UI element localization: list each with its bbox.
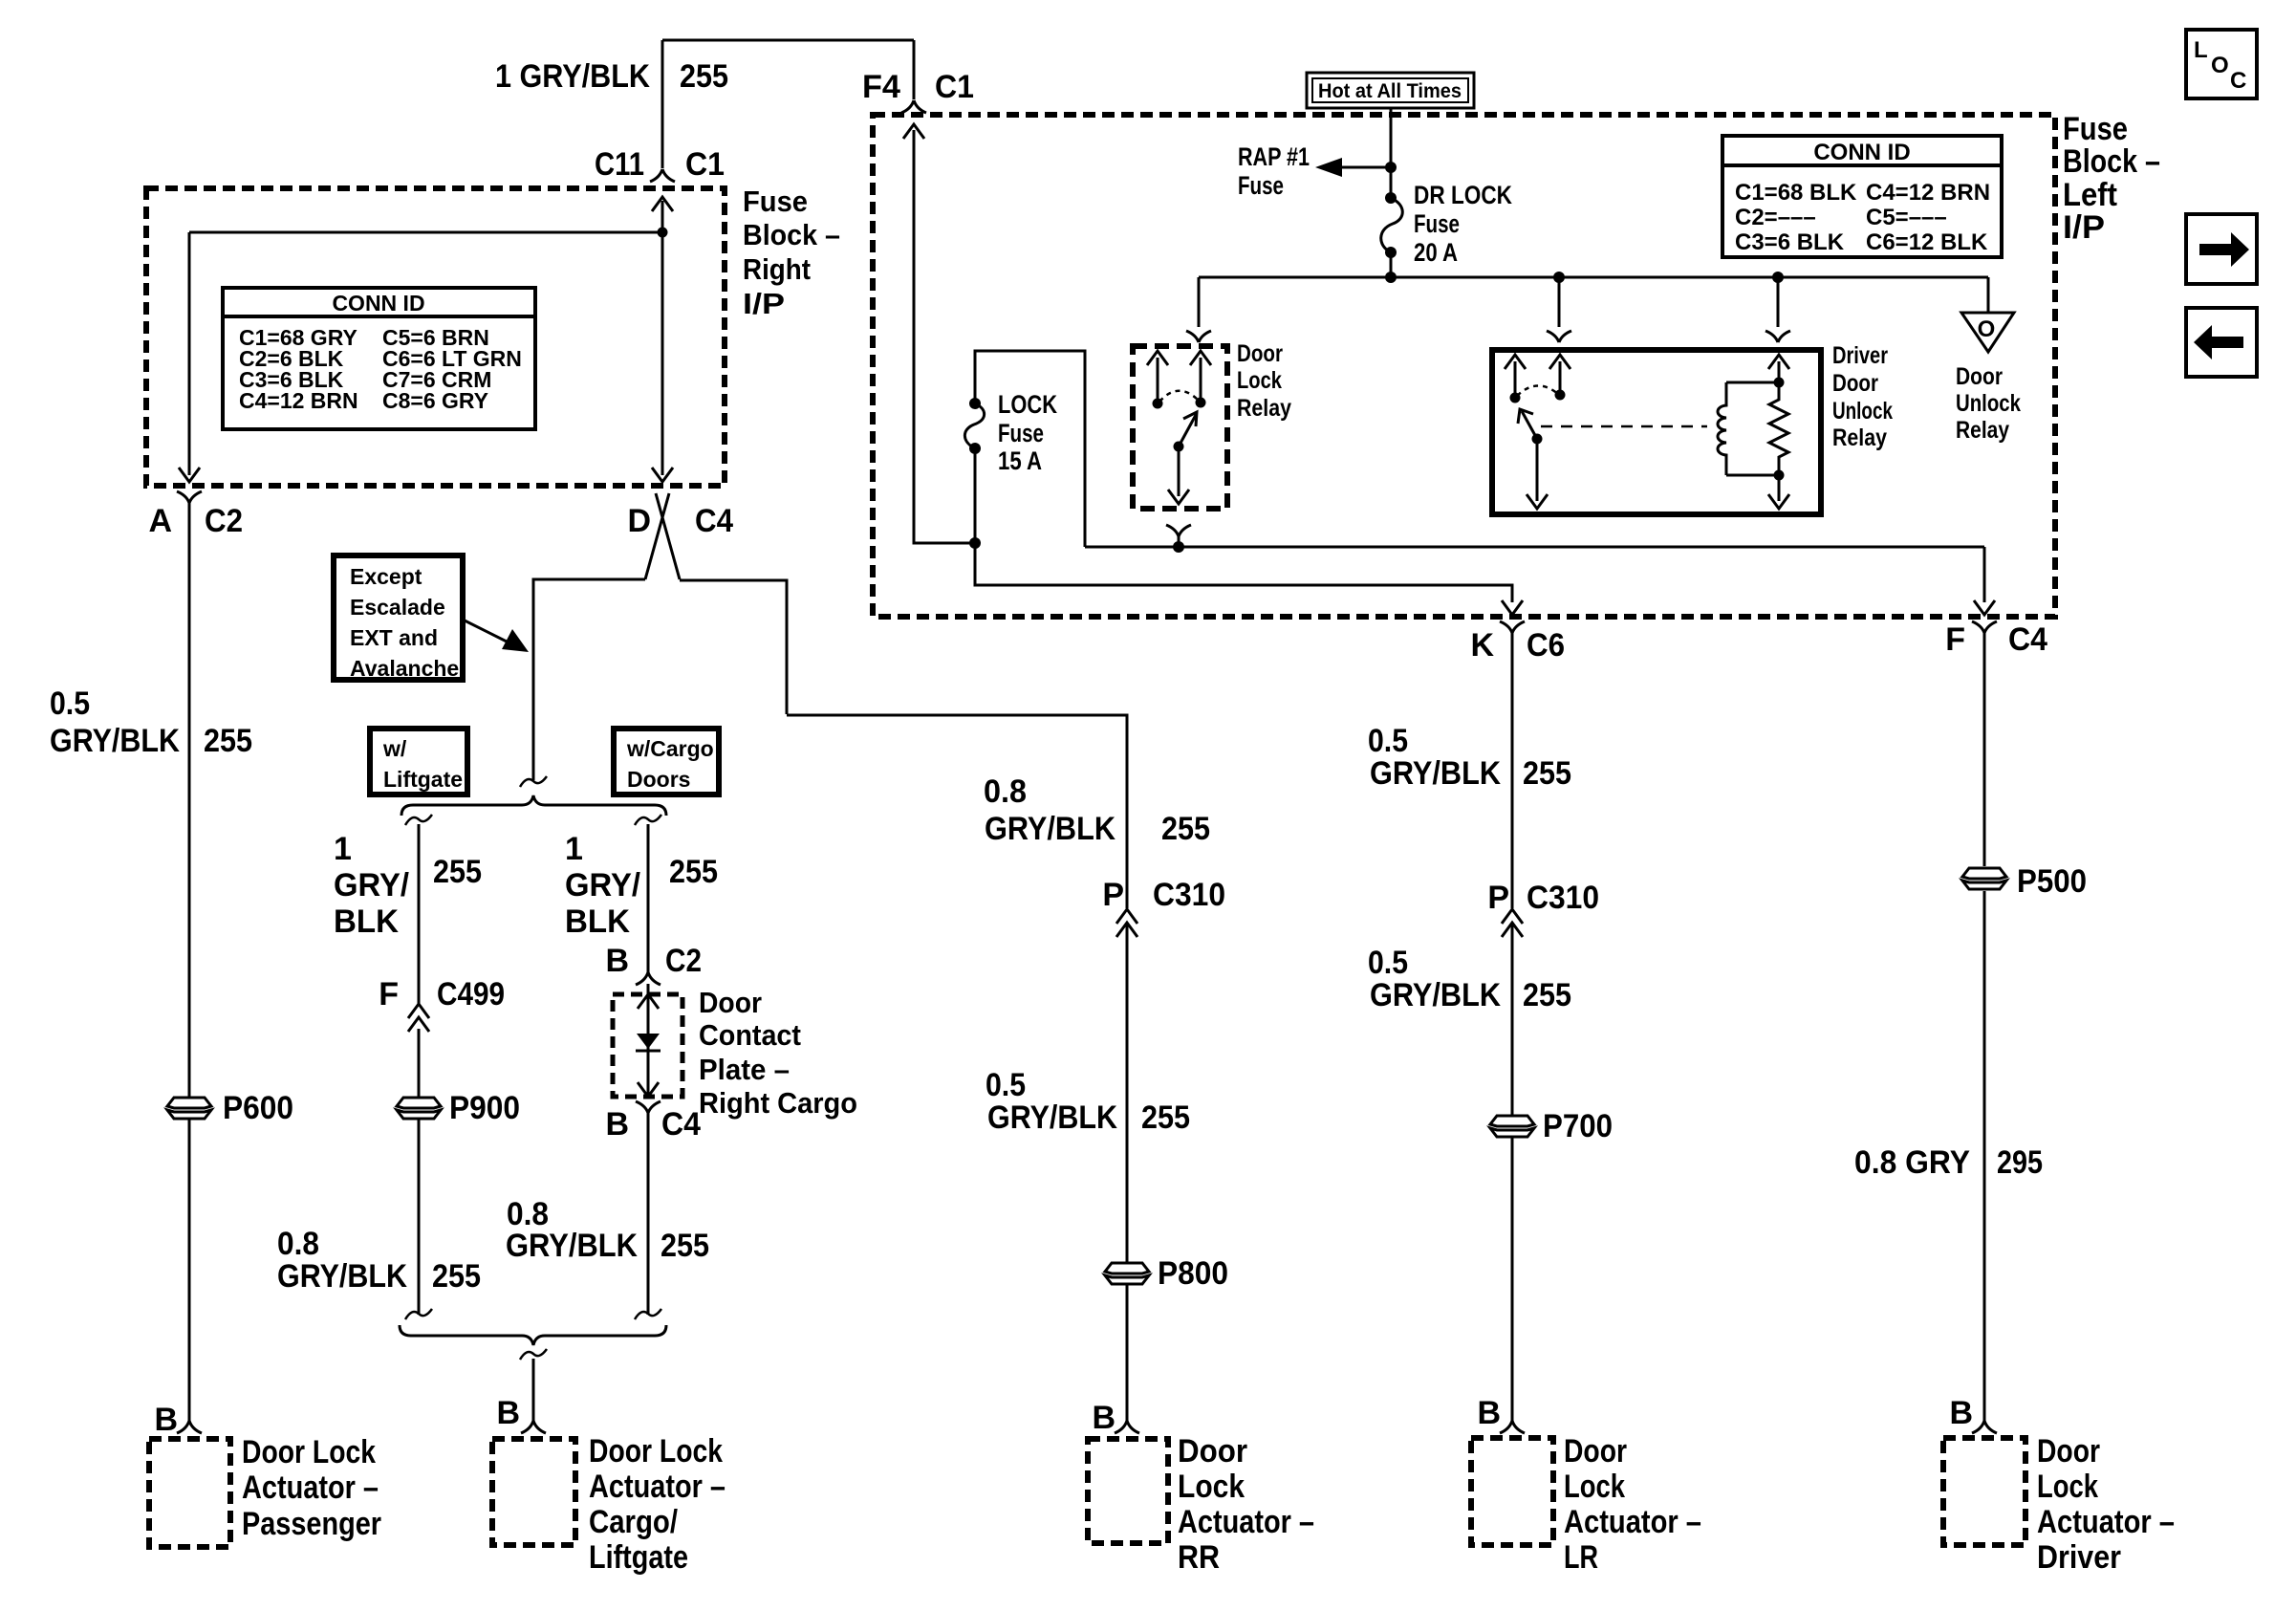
svg-text:P900: P900 xyxy=(449,1090,520,1126)
svg-text:GRY/: GRY/ xyxy=(565,867,641,903)
svg-text:C4: C4 xyxy=(695,503,733,539)
svg-text:Fuse: Fuse xyxy=(1238,171,1284,200)
wire K branch xyxy=(975,543,1523,615)
door lock actuator LR dashed box xyxy=(1471,1438,1553,1545)
connector door lock relay top xyxy=(1186,331,1211,342)
wire driver relay switch feed xyxy=(1558,277,1561,327)
svg-text:BLK: BLK xyxy=(565,903,630,940)
connector F/C499 xyxy=(408,1004,429,1032)
wire RAP tap with arrow xyxy=(1315,158,1397,177)
svg-text:0.5: 0.5 xyxy=(50,686,90,722)
svg-text:Actuator –: Actuator – xyxy=(2037,1504,2175,1540)
svg-text:15 A: 15 A xyxy=(998,446,1042,475)
svg-text:Liftgate: Liftgate xyxy=(383,767,463,792)
label F C499 xyxy=(379,976,505,1012)
wire door lock relay feed xyxy=(1198,277,1201,327)
svg-text:255: 255 xyxy=(1523,977,1571,1013)
door contact plate dashed box xyxy=(613,994,682,1097)
loc reference box xyxy=(2186,30,2257,98)
svg-text:Block –: Block – xyxy=(743,218,840,251)
nav arrow left box xyxy=(2186,308,2257,377)
break squiggle below lower brace xyxy=(520,1349,547,1360)
svg-text:Driver: Driver xyxy=(2037,1539,2121,1576)
label F C4 xyxy=(1945,621,2047,658)
break squiggle left branch top xyxy=(405,815,432,825)
svg-text:P: P xyxy=(1102,877,1124,913)
connector driver relay switch top xyxy=(1547,331,1571,342)
svg-text:255: 255 xyxy=(1161,811,1210,847)
contact plate arrow up xyxy=(638,994,659,1009)
svg-text:F: F xyxy=(379,976,399,1012)
junction dot bus driver switch xyxy=(1553,272,1565,283)
svg-text:K: K xyxy=(1470,627,1494,664)
grommet P700 xyxy=(1490,1116,1534,1137)
label B LR xyxy=(1477,1395,1501,1431)
svg-text:Avalanche: Avalanche xyxy=(350,656,459,681)
svg-text:Relay: Relay xyxy=(1956,417,2009,444)
svg-text:C1=68 BLK: C1=68 BLK xyxy=(1735,180,1857,206)
grommet P900 xyxy=(397,1098,441,1119)
svg-text:Door: Door xyxy=(1237,340,1283,367)
svg-text:255: 255 xyxy=(661,1228,709,1264)
door lock actuator passenger dashed box xyxy=(149,1439,230,1547)
wire door unlock relay triangle feed xyxy=(1987,277,1990,313)
svg-text:Door: Door xyxy=(1956,363,2003,390)
svg-text:295: 295 xyxy=(1997,1144,2043,1181)
svg-text:Passenger: Passenger xyxy=(242,1506,381,1542)
door lock relay blade xyxy=(1174,412,1198,452)
svg-text:Fuse: Fuse xyxy=(2063,111,2128,147)
label B RR xyxy=(1092,1400,1116,1436)
label P900 xyxy=(449,1090,520,1126)
svg-text:C499: C499 xyxy=(437,976,505,1012)
junction dot xyxy=(658,228,668,238)
door lock relay NO contact xyxy=(1190,351,1211,408)
label Fuse Block Right I/P xyxy=(743,185,840,320)
svg-text:GRY/BLK: GRY/BLK xyxy=(506,1228,638,1264)
connector C11/C1 xyxy=(650,169,675,182)
svg-text:Except: Except xyxy=(350,564,422,589)
label P500 xyxy=(2017,863,2087,900)
CONN ID table left xyxy=(223,288,535,429)
svg-text:Lock: Lock xyxy=(1237,367,1282,394)
svg-text:255: 255 xyxy=(1523,755,1571,792)
svg-text:Actuator –: Actuator – xyxy=(1178,1504,1314,1540)
svg-text:Actuator –: Actuator – xyxy=(589,1469,726,1505)
label 1 GRY/ BLK 255 cargo xyxy=(565,831,718,940)
wire F branch corner xyxy=(1974,547,1995,615)
driver relay NC contact xyxy=(1505,355,1526,403)
svg-text:Actuator –: Actuator – xyxy=(1564,1504,1701,1540)
label Door Contact Plate Right Cargo xyxy=(699,986,857,1120)
door lock relay blade stem xyxy=(1168,446,1189,504)
svg-text:1: 1 xyxy=(334,831,352,867)
svg-text:Left: Left xyxy=(2063,177,2117,213)
svg-text:20 A: 20 A xyxy=(1414,238,1458,267)
svg-text:Relay: Relay xyxy=(1832,425,1887,451)
svg-text:255: 255 xyxy=(204,723,252,759)
connector D/C4 split xyxy=(645,493,680,579)
wire F branch lower xyxy=(1983,633,1986,1421)
wire hot feed down xyxy=(1390,108,1393,277)
svg-text:C3=6 BLK: C3=6 BLK xyxy=(1735,229,1845,255)
contact plate diode xyxy=(636,1034,661,1051)
svg-text:Liftgate: Liftgate xyxy=(589,1539,688,1576)
connector B/C4 xyxy=(636,1101,661,1113)
svg-text:Block –: Block – xyxy=(2063,143,2160,180)
label B C2 contact plate xyxy=(605,943,702,979)
svg-text:GRY/: GRY/ xyxy=(334,867,410,903)
svg-text:P700: P700 xyxy=(1543,1108,1613,1144)
driver relay actuation dashed link xyxy=(1541,425,1707,428)
wire D vertical inside fuse block xyxy=(652,197,673,482)
door lock actuator driver dashed box xyxy=(1943,1438,2025,1545)
svg-text:DR LOCK: DR LOCK xyxy=(1414,181,1512,209)
svg-text:P500: P500 xyxy=(2017,863,2087,900)
svg-text:C6: C6 xyxy=(1527,627,1565,664)
junction dot bus driver coil xyxy=(1772,272,1784,283)
label Door Unlock Relay xyxy=(1956,363,2021,444)
label B C4 contact lower xyxy=(605,1106,701,1143)
label F4 C1 xyxy=(862,69,974,105)
svg-text:A: A xyxy=(148,503,172,539)
svg-text:D: D xyxy=(627,503,651,539)
svg-text:RAP #1: RAP #1 xyxy=(1238,142,1310,171)
svg-text:0.5: 0.5 xyxy=(986,1067,1026,1103)
grommet P800 xyxy=(1105,1263,1149,1284)
brace upper xyxy=(401,795,666,816)
svg-text:I/P: I/P xyxy=(2063,209,2105,246)
svg-text:0.8: 0.8 xyxy=(984,773,1027,810)
label Fuse Block Left I/P xyxy=(2063,111,2160,246)
svg-text:Lock: Lock xyxy=(2037,1469,2098,1505)
label Door Lock Actuator Driver xyxy=(2037,1433,2175,1576)
svg-text:B: B xyxy=(1092,1400,1116,1436)
svg-text:Fuse: Fuse xyxy=(743,185,808,218)
driver relay NO contact xyxy=(1549,355,1570,401)
driver relay blade stem xyxy=(1527,439,1548,509)
svg-text:C310: C310 xyxy=(1153,877,1225,913)
svg-text:B: B xyxy=(1477,1395,1501,1431)
connector B driver xyxy=(1972,1421,1997,1433)
label A C2 xyxy=(148,503,243,539)
label C11 C1 xyxy=(595,146,725,183)
svg-text:C2: C2 xyxy=(665,943,702,979)
nav arrow right box xyxy=(2186,214,2257,284)
svg-text:255: 255 xyxy=(680,58,728,95)
svg-text:Driver: Driver xyxy=(1832,342,1888,369)
door lock actuator cargo dashed box xyxy=(492,1439,575,1545)
driver relay coil terminal arrows xyxy=(1768,355,1789,509)
svg-text:C4=12 BRN: C4=12 BRN xyxy=(239,388,358,413)
svg-text:Lock: Lock xyxy=(1564,1469,1625,1505)
svg-text:EXT and: EXT and xyxy=(350,625,438,650)
svg-text:255: 255 xyxy=(433,854,482,890)
svg-text:255: 255 xyxy=(669,854,718,890)
junction dot bus DR LOCK xyxy=(1385,272,1397,283)
w/Cargo Doors box xyxy=(614,729,719,795)
driver relay resistor xyxy=(1769,382,1788,475)
svg-text:w/: w/ xyxy=(382,736,407,761)
svg-text:Door Lock: Door Lock xyxy=(589,1433,723,1469)
svg-text:C4: C4 xyxy=(2008,621,2047,658)
svg-text:Unlock: Unlock xyxy=(1956,390,2021,417)
door lock relay NC contact xyxy=(1147,351,1168,409)
wire top feed xyxy=(662,39,914,42)
svg-text:255: 255 xyxy=(432,1258,481,1295)
fuse block left I/P dashed box xyxy=(873,115,2055,617)
label P800 xyxy=(1158,1255,1228,1292)
label DR LOCK Fuse 20 A xyxy=(1414,181,1512,267)
wire F4 entry into fuse block xyxy=(903,124,975,543)
svg-text:w/Cargo: w/Cargo xyxy=(626,736,714,761)
fuse block right I/P dashed box xyxy=(146,188,725,486)
fuse DR LOCK symbol xyxy=(1381,192,1403,258)
driver relay blade xyxy=(1518,409,1543,445)
label 0.8 GRY 295 xyxy=(1854,1144,2043,1181)
svg-text:C11: C11 xyxy=(595,146,644,183)
svg-text:1: 1 xyxy=(565,831,583,867)
grommet P500 xyxy=(1962,868,2006,889)
svg-text:P600: P600 xyxy=(223,1090,293,1126)
svg-text:C4=12 BRN: C4=12 BRN xyxy=(1866,180,1990,206)
svg-text:O: O xyxy=(2211,53,2229,78)
wire left branch liftgate xyxy=(418,824,421,1315)
except escalade box xyxy=(334,555,463,681)
label B driver xyxy=(1949,1395,1973,1431)
label Door Lock Actuator Passenger xyxy=(242,1434,381,1542)
wire to RR branch xyxy=(787,715,1127,908)
bus wire xyxy=(1199,276,1988,279)
svg-text:GRY/BLK: GRY/BLK xyxy=(277,1258,407,1295)
svg-text:Door: Door xyxy=(1832,370,1878,397)
svg-text:P800: P800 xyxy=(1158,1255,1228,1292)
label P C310 K xyxy=(1487,880,1599,916)
svg-text:Right Cargo: Right Cargo xyxy=(699,1086,857,1120)
label 1 GRY/BLK 255 xyxy=(495,58,728,95)
svg-text:LOCK: LOCK xyxy=(998,390,1057,419)
svg-text:F: F xyxy=(1945,621,1965,658)
svg-text:C1: C1 xyxy=(935,69,974,105)
arrow from except box xyxy=(463,620,529,652)
svg-text:P: P xyxy=(1487,880,1509,916)
connector B cargo xyxy=(521,1421,546,1433)
label LOCK Fuse 15 A xyxy=(998,390,1057,475)
break squiggle right branch top xyxy=(635,815,661,825)
connector B LR xyxy=(1500,1421,1525,1433)
svg-text:Actuator –: Actuator – xyxy=(242,1469,379,1506)
label Driver Door Unlock Relay xyxy=(1832,342,1893,451)
junction dot lock fuse xyxy=(969,537,981,549)
driver door unlock relay box xyxy=(1492,350,1821,514)
svg-text:Escalade: Escalade xyxy=(350,595,445,620)
connector B RR xyxy=(1115,1421,1139,1433)
label 1 GRY/ BLK 255 liftgate xyxy=(334,831,482,940)
wire RR branch lower xyxy=(1126,923,1129,1421)
w/Liftgate box xyxy=(370,729,467,795)
wire A vertical inside fuse block xyxy=(179,232,200,482)
svg-text:Unlock: Unlock xyxy=(1832,398,1893,425)
label D C4 xyxy=(627,503,733,539)
svg-text:B: B xyxy=(605,1106,629,1143)
hot at all times box xyxy=(1307,73,1474,108)
door unlock relay triangle xyxy=(1961,313,2014,352)
svg-text:CONN ID: CONN ID xyxy=(1813,140,1910,165)
connector B/C2 xyxy=(636,972,661,985)
svg-text:GRY/BLK: GRY/BLK xyxy=(1370,755,1501,792)
door lock relay contact arc xyxy=(1159,391,1199,402)
label B cargo xyxy=(496,1395,520,1431)
label 0.8 GRY/BLK 255 cargo lower xyxy=(506,1196,709,1264)
break squiggle right branch bottom xyxy=(635,1309,661,1319)
svg-text:Door Lock: Door Lock xyxy=(242,1434,376,1470)
label 0.5 GRY/BLK 255 passenger xyxy=(50,686,252,759)
door lock relay dashed box xyxy=(1133,346,1227,509)
label 0.8 GRY/BLK 255 liftgate lower xyxy=(277,1226,481,1295)
svg-text:Door: Door xyxy=(1564,1433,1627,1469)
connector door lock relay output xyxy=(1166,525,1191,547)
wire A drop to passenger actuator xyxy=(188,503,191,1421)
connector F/C4 xyxy=(1972,621,1997,633)
label P700 xyxy=(1543,1108,1613,1144)
svg-text:O: O xyxy=(1978,316,1996,342)
svg-text:BLK: BLK xyxy=(334,903,399,940)
wire drop to C11 xyxy=(661,40,664,168)
label 0.8 GRY/BLK 255 RR upper xyxy=(984,773,1210,847)
label RAP #1 Fuse xyxy=(1238,142,1310,200)
svg-text:Lock: Lock xyxy=(1178,1469,1245,1505)
svg-text:0.8: 0.8 xyxy=(277,1226,319,1262)
svg-text:C8=6 GRY: C8=6 GRY xyxy=(382,388,488,413)
svg-text:Relay: Relay xyxy=(1237,395,1291,422)
svg-text:B: B xyxy=(496,1395,520,1431)
wire right branch cargo xyxy=(647,824,650,1315)
grommet P600 xyxy=(167,1098,211,1119)
svg-text:GRY/BLK: GRY/BLK xyxy=(50,723,180,759)
svg-text:CONN ID: CONN ID xyxy=(332,291,424,316)
svg-text:Door: Door xyxy=(2037,1433,2100,1469)
svg-text:C: C xyxy=(2230,68,2246,94)
label 0.5 GRY/BLK 255 K upper xyxy=(1368,723,1571,792)
svg-text:Fuse: Fuse xyxy=(1414,209,1460,238)
svg-text:C2: C2 xyxy=(205,503,243,539)
driver relay coil xyxy=(1718,378,1785,481)
svg-text:C310: C310 xyxy=(1527,880,1599,916)
svg-text:Cargo/: Cargo/ xyxy=(589,1504,678,1540)
wire driver relay coil feed xyxy=(1777,277,1780,327)
svg-text:Hot at All Times: Hot at All Times xyxy=(1318,80,1462,102)
svg-text:GRY/BLK: GRY/BLK xyxy=(985,811,1116,847)
wire K branch lower xyxy=(1511,633,1514,1421)
svg-text:0.5: 0.5 xyxy=(1368,945,1408,981)
connector P/C310 K xyxy=(1502,909,1523,937)
svg-text:Door: Door xyxy=(1178,1433,1247,1469)
svg-text:GRY/BLK: GRY/BLK xyxy=(987,1099,1117,1136)
connector driver relay coil top xyxy=(1765,331,1790,342)
label Door Lock Actuator LR xyxy=(1564,1433,1701,1576)
connector K/C6 xyxy=(1500,621,1525,633)
label 0.5 GRY/BLK 255 K lower xyxy=(1368,945,1571,1013)
wire lock fuse output loop xyxy=(975,351,1085,547)
break squiggle left branch bottom xyxy=(405,1309,432,1319)
svg-text:0.8 GRY: 0.8 GRY xyxy=(1854,1144,1970,1181)
CONN ID table right xyxy=(1722,136,2002,257)
svg-text:B: B xyxy=(605,943,629,979)
svg-text:GRY/BLK: GRY/BLK xyxy=(1370,977,1501,1013)
svg-text:B: B xyxy=(154,1402,178,1438)
svg-text:Contact: Contact xyxy=(699,1018,801,1052)
contact plate arrow down xyxy=(638,1082,659,1097)
label Door Lock Actuator Cargo/Liftgate xyxy=(589,1433,726,1576)
label P C310 RR xyxy=(1102,877,1225,913)
connector P/C310 RR xyxy=(1116,909,1137,937)
label Door Lock Relay xyxy=(1237,340,1291,422)
svg-text:C6=12 BLK: C6=12 BLK xyxy=(1866,229,1988,255)
wire relay feed horizontal xyxy=(1085,546,1984,549)
svg-text:Doors: Doors xyxy=(627,767,690,792)
fuse LOCK symbol xyxy=(964,398,984,543)
wire F4 top drop xyxy=(913,40,916,99)
junction dot relay output xyxy=(1173,541,1184,553)
svg-text:B: B xyxy=(1949,1395,1973,1431)
svg-text:Fuse: Fuse xyxy=(998,419,1044,447)
svg-text:1 GRY/BLK: 1 GRY/BLK xyxy=(495,58,650,95)
label 0.5 GRY/BLK 255 RR lower xyxy=(986,1067,1190,1136)
svg-text:LR: LR xyxy=(1564,1539,1598,1576)
svg-text:255: 255 xyxy=(1141,1099,1190,1136)
label K C6 xyxy=(1470,627,1565,664)
brace lower xyxy=(400,1325,666,1345)
connector B passenger xyxy=(177,1421,202,1433)
label P600 xyxy=(223,1090,293,1126)
svg-text:Plate –: Plate – xyxy=(699,1053,790,1086)
svg-text:Right: Right xyxy=(743,252,811,286)
svg-text:C5=–––: C5=––– xyxy=(1866,205,1947,230)
svg-text:C1: C1 xyxy=(685,146,725,183)
wire stub to cargo actuator xyxy=(532,1359,535,1421)
wire split left leg xyxy=(533,579,645,780)
label Door Lock Actuator RR xyxy=(1178,1433,1314,1576)
break squiggle above brace xyxy=(520,776,547,787)
wire split right leg xyxy=(680,580,787,714)
connector F4/C1 xyxy=(901,100,926,113)
svg-text:F4: F4 xyxy=(862,69,900,105)
svg-text:C2=–––: C2=––– xyxy=(1735,205,1816,230)
label B passenger xyxy=(154,1402,178,1438)
svg-text:I/P: I/P xyxy=(743,287,785,320)
wire horizontal inside fuse block xyxy=(189,231,662,234)
door lock actuator RR dashed box xyxy=(1088,1439,1168,1543)
driver relay contact arc xyxy=(1517,385,1558,396)
svg-text:L: L xyxy=(2194,37,2208,63)
svg-text:Door: Door xyxy=(699,986,762,1019)
svg-text:0.5: 0.5 xyxy=(1368,723,1408,759)
svg-text:RR: RR xyxy=(1178,1539,1220,1576)
connector A/C2 xyxy=(177,491,202,503)
svg-text:C4: C4 xyxy=(661,1106,701,1143)
